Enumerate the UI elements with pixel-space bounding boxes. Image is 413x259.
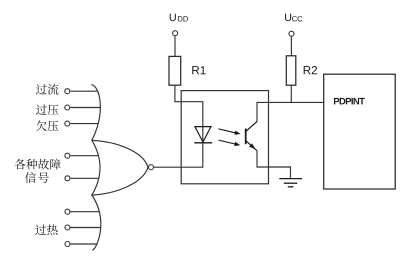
- inverter bubble: [149, 165, 154, 170]
- wire UCC to R2: [290, 37, 292, 56]
- wire UDD to R1: [174, 36, 176, 56]
- light arrow 2: [219, 140, 241, 146]
- phototransistor Q1: [246, 122, 257, 151]
- NOR gate input edge top extension arc: [91, 85, 100, 141]
- LED D1: [194, 127, 212, 143]
- label 过压: [36, 104, 59, 115]
- input terminal 欠压: [65, 121, 70, 126]
- wire input fault c to gate: [71, 211, 100, 213]
- wire Q1 collector to PDPINT: [257, 102, 324, 121]
- wire input 各种故障 a to gate: [71, 155, 99, 157]
- wire R1 to LED anode: [175, 85, 203, 143]
- node UDD label: [170, 14, 176, 22]
- terminal UCC: [289, 31, 294, 36]
- label R1: [192, 66, 205, 74]
- label 过热: [35, 224, 58, 235]
- resistor R2: [286, 56, 296, 85]
- label 过流: [36, 84, 59, 95]
- input terminal 过热: [65, 225, 70, 230]
- ground: [279, 179, 302, 187]
- wire R2 to collector rail: [290, 85, 292, 102]
- wire gate output to LED cathode: [154, 166, 203, 168]
- resistor R1: [169, 56, 181, 85]
- label PDPINT: [334, 98, 365, 104]
- terminal UDD: [173, 31, 178, 36]
- IC PDPINT box: [324, 74, 396, 189]
- input terminal 各种故障 a: [65, 153, 70, 158]
- label 各种故障: [15, 159, 61, 170]
- wire input 过压 to gate: [70, 107, 100, 109]
- input terminal 过压: [65, 105, 70, 110]
- light arrow 1: [218, 129, 240, 135]
- wire input 欠压 to gate: [70, 123, 98, 125]
- node UCC label: [285, 14, 291, 22]
- label 信号: [25, 172, 49, 183]
- wire input 过流 to gate: [70, 90, 98, 92]
- wire LED cathode down: [202, 143, 204, 167]
- wire input fault d to gate: [71, 243, 98, 245]
- label 欠压: [36, 120, 58, 131]
- input terminal 过流: [65, 89, 70, 94]
- NOR gate input edge bottom extension arc: [92, 195, 101, 250]
- input terminal fault c: [65, 209, 70, 214]
- wire input 各种故障 b to gate: [71, 177, 100, 179]
- wire input 过热 to gate: [71, 227, 102, 229]
- optocoupler U1 box: [181, 91, 268, 184]
- input terminal fault d: [65, 242, 70, 247]
- input terminal 各种故障 b: [65, 176, 70, 181]
- NOR gate body: [92, 140, 148, 195]
- wire Q1 emitter to ground: [257, 151, 291, 179]
- label R2: [304, 66, 317, 74]
